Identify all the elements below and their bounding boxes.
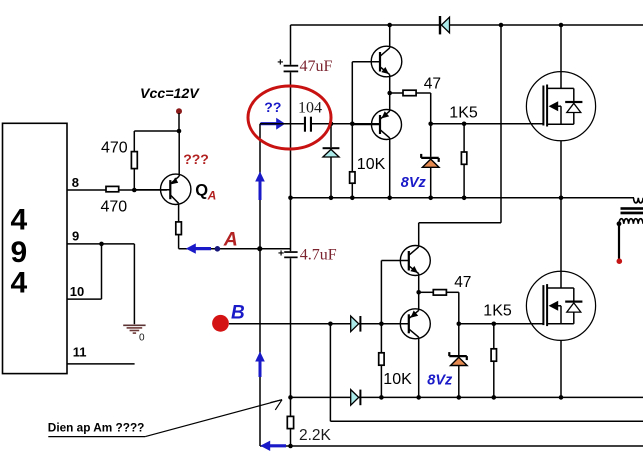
svg-text:???: ??? bbox=[183, 151, 209, 167]
svg-text:11: 11 bbox=[73, 345, 87, 360]
svg-text:470: 470 bbox=[101, 199, 128, 216]
svg-text:Vcc=12V: Vcc=12V bbox=[140, 86, 200, 102]
svg-text:10K: 10K bbox=[383, 371, 412, 388]
svg-text:10: 10 bbox=[70, 284, 84, 299]
svg-text:Q: Q bbox=[195, 182, 208, 200]
svg-text:470: 470 bbox=[101, 140, 128, 157]
svg-text:104: 104 bbox=[298, 100, 322, 117]
svg-text:A: A bbox=[207, 188, 217, 202]
svg-text:B: B bbox=[231, 303, 245, 324]
svg-text:8Vz: 8Vz bbox=[401, 175, 427, 191]
svg-text:+: + bbox=[277, 56, 283, 68]
svg-text:0: 0 bbox=[139, 333, 145, 344]
svg-text:47: 47 bbox=[454, 274, 471, 291]
svg-text:9: 9 bbox=[72, 228, 79, 243]
svg-text:1K5: 1K5 bbox=[483, 303, 512, 320]
svg-text:4.7uF: 4.7uF bbox=[300, 246, 337, 263]
svg-text:8: 8 bbox=[72, 175, 79, 190]
svg-text:9: 9 bbox=[11, 236, 28, 269]
svg-text:4: 4 bbox=[11, 204, 28, 237]
svg-text:Dien ap Am ????: Dien ap Am ???? bbox=[48, 420, 145, 434]
svg-text:1K5: 1K5 bbox=[449, 104, 478, 121]
svg-text:+: + bbox=[278, 248, 284, 260]
svg-text:8Vz: 8Vz bbox=[427, 372, 453, 388]
svg-text:47: 47 bbox=[424, 75, 441, 92]
svg-text:2.2K: 2.2K bbox=[299, 427, 332, 444]
svg-text:??: ?? bbox=[264, 99, 281, 115]
svg-text:4: 4 bbox=[11, 267, 28, 300]
svg-text:10K: 10K bbox=[357, 156, 386, 173]
svg-text:A: A bbox=[223, 228, 238, 250]
svg-text:47uF: 47uF bbox=[300, 58, 333, 75]
